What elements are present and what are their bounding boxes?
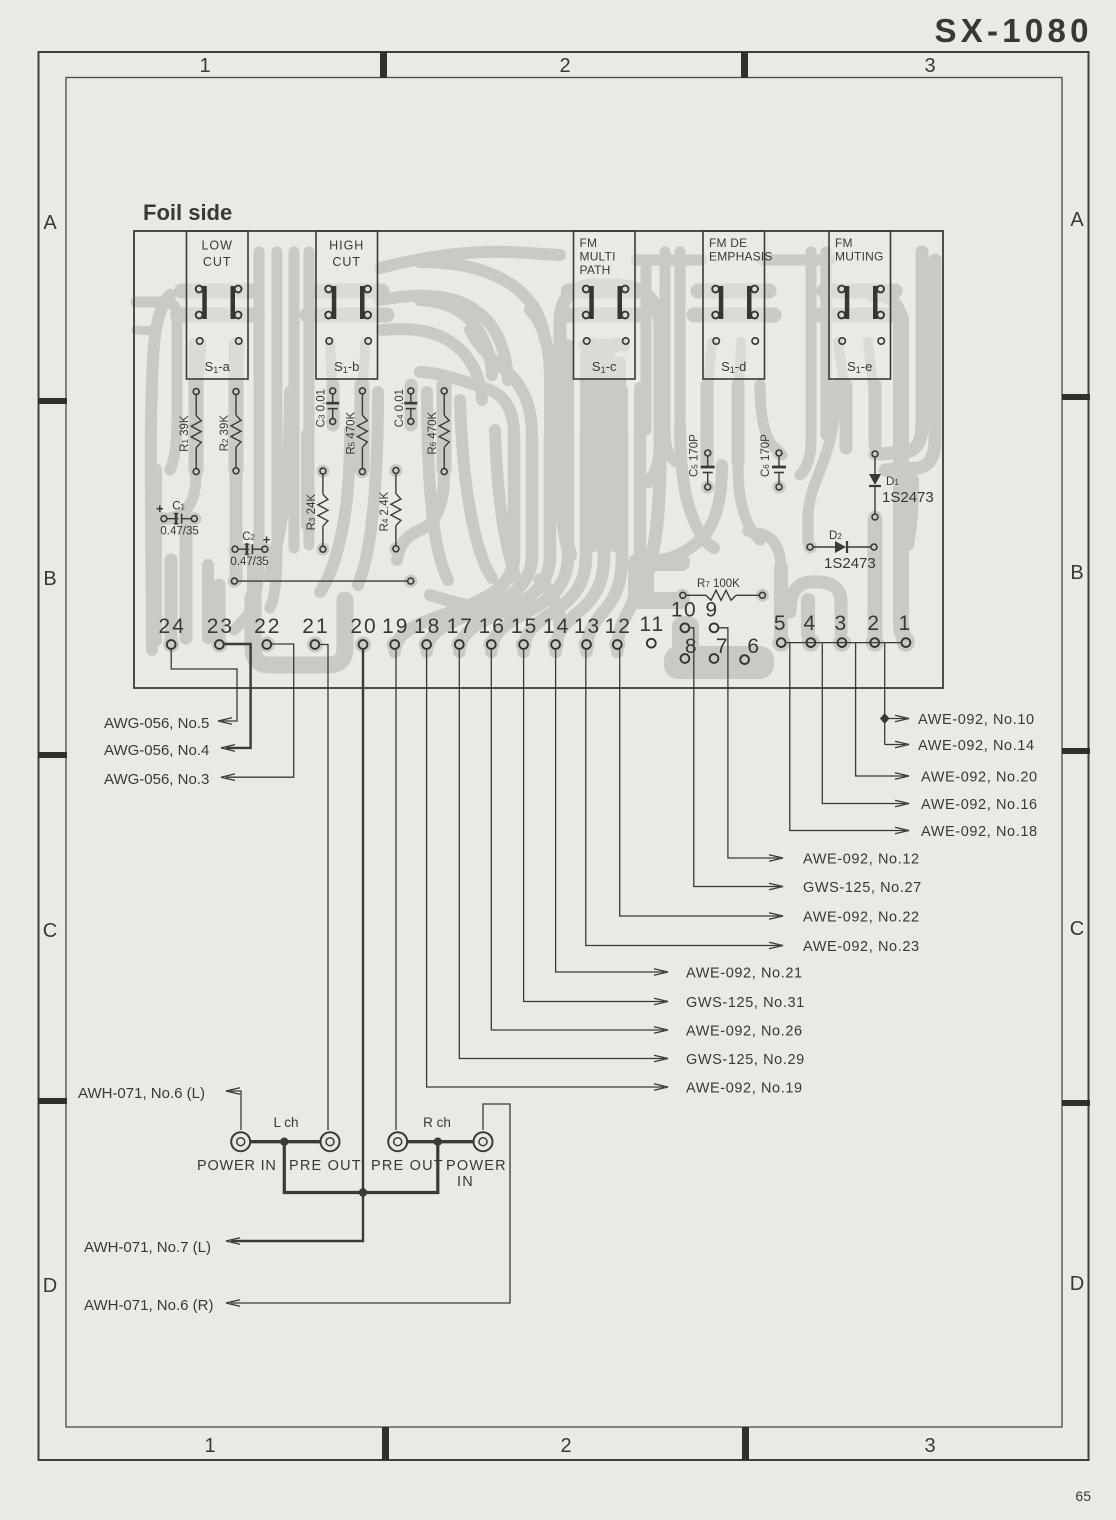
svg-text:2: 2: [867, 612, 879, 635]
svg-text:5: 5: [774, 612, 786, 635]
pin 5: [777, 638, 786, 647]
svg-text:22: 22: [254, 615, 281, 638]
wire to GWS-125, No.29: [459, 649, 664, 1059]
wire pin19 to PRE OUT R: [395, 649, 397, 1130]
wire ground bus U: [284, 1142, 438, 1193]
junction dot L: [280, 1138, 288, 1146]
svg-text:Foil side: Foil side: [143, 200, 232, 225]
junction diamond: [880, 713, 890, 724]
svg-text:A: A: [43, 212, 57, 234]
resistor R7 100K: [686, 590, 760, 600]
svg-text:+: +: [263, 532, 271, 547]
svg-text:R2 39K: R2 39K: [219, 415, 231, 452]
svg-text:AWH-071, No.7 (L): AWH-071, No.7 (L): [84, 1239, 211, 1256]
resistor R1 R<tspan font-size="8">1</tspan> 39K: [191, 395, 201, 469]
svg-text:9: 9: [705, 599, 718, 622]
wire to AWE-092, No.12: [719, 628, 779, 858]
svg-text:L ch: L ch: [273, 1115, 298, 1130]
svg-text:C6 170P: C6 170P: [760, 434, 772, 477]
svg-text:POWER IN: POWER IN: [197, 1158, 277, 1174]
svg-text:+: +: [156, 501, 164, 516]
capacitor C4 C<tspan font-size="8">4</tspan> 0.01: [404, 394, 417, 419]
svg-text:AWE-092, No.21: AWE-092, No.21: [686, 966, 803, 982]
svg-text:GWS-125, No.27: GWS-125, No.27: [803, 880, 922, 896]
svg-text:AWG-056, No.5: AWG-056, No.5: [104, 715, 209, 732]
svg-text:17: 17: [447, 615, 474, 638]
pin 10: [681, 623, 690, 632]
svg-text:0.47/35: 0.47/35: [160, 526, 198, 538]
wire POWER IN R to AWH-071 No.6(R): [231, 1104, 510, 1303]
svg-text:3: 3: [924, 1435, 935, 1457]
svg-text:R7 100K: R7 100K: [697, 578, 740, 590]
svg-text:11: 11: [639, 613, 665, 636]
svg-text:19: 19: [382, 615, 409, 638]
wire jack link L: [251, 1140, 321, 1143]
svg-text:CUT: CUT: [203, 255, 232, 269]
svg-text:AWE-092, No.12: AWE-092, No.12: [803, 852, 920, 868]
svg-text:B: B: [43, 568, 56, 590]
wire pin24 to AWG-056 No.5: [171, 649, 237, 721]
svg-text:1: 1: [204, 1435, 215, 1457]
svg-text:FM DE: FM DE: [709, 236, 747, 250]
svg-text:MUTING: MUTING: [835, 250, 884, 264]
svg-text:AWE-092, No.16: AWE-092, No.16: [921, 797, 1038, 813]
resistor R4 R<tspan font-size="8">4</tspan> 2.4K: [391, 474, 401, 546]
pin 17: [455, 640, 464, 649]
svg-text:21: 21: [302, 615, 329, 638]
wire to AWE-092, No.26: [491, 649, 664, 1030]
switch S1-a box: [187, 231, 249, 379]
svg-text:R1 39K: R1 39K: [179, 415, 191, 452]
svg-text:D2: D2: [829, 530, 842, 542]
svg-text:MULTI: MULTI: [580, 250, 616, 264]
junction dot R: [434, 1138, 442, 1146]
svg-text:AWE-092, No.19: AWE-092, No.19: [686, 1081, 803, 1097]
wire drop pins1-2 junction to AWE-092 No.10: [884, 643, 886, 745]
pin 19: [390, 640, 399, 649]
svg-text:AWH-071, No.6 (L): AWH-071, No.6 (L): [78, 1085, 205, 1102]
pin 24: [167, 640, 176, 649]
svg-text:R4 2.4K: R4 2.4K: [379, 492, 391, 532]
svg-text:3: 3: [924, 55, 935, 77]
svg-text:AWG-056, No.4: AWG-056, No.4: [104, 742, 209, 759]
svg-text:18: 18: [414, 615, 441, 638]
svg-text:CUT: CUT: [332, 255, 361, 269]
pin 21: [311, 640, 320, 649]
wire pin21 to PRE OUT L: [319, 645, 328, 1131]
capacitor C2 0.47/35: [238, 543, 262, 555]
wire to AWE-092, No.21: [556, 649, 664, 972]
svg-text:FM: FM: [835, 236, 853, 250]
svg-text:C3 0.01: C3 0.01: [316, 389, 328, 427]
resistor R3 R<tspan font-size="8">3</tspan> 24K: [318, 474, 328, 546]
wire to GWS-125, No.27: [690, 628, 779, 887]
jack POWER IN L: [231, 1132, 250, 1151]
svg-text:24: 24: [159, 615, 186, 638]
svg-text:AWE-092, No.20: AWE-092, No.20: [921, 770, 1038, 786]
svg-text:C2: C2: [242, 531, 255, 543]
svg-text:C: C: [1070, 918, 1084, 940]
pin 4: [806, 638, 815, 647]
svg-text:3: 3: [835, 612, 847, 635]
wire to AWE-092, No.23: [586, 649, 779, 946]
svg-text:0.47/35: 0.47/35: [230, 556, 268, 568]
svg-text:R3 24K: R3 24K: [306, 494, 318, 531]
switch S1-c box: [574, 231, 636, 379]
jack POWER IN R: [474, 1132, 493, 1151]
svg-text:AWE-092, No.10: AWE-092, No.10: [918, 712, 1035, 728]
resistor R5 R<tspan font-size="8">5</tspan> 470K: [357, 394, 367, 469]
svg-text:4: 4: [803, 612, 815, 635]
jack PRE OUT L: [321, 1132, 340, 1151]
svg-text:PRE OUT: PRE OUT: [289, 1158, 362, 1174]
switch S1-b box: [316, 231, 378, 379]
svg-text:C5 170P: C5 170P: [689, 434, 701, 477]
capacitor C6 170P: [772, 456, 786, 484]
svg-text:AWE-092, No.18: AWE-092, No.18: [921, 824, 1038, 840]
svg-text:AWG-056, No.3: AWG-056, No.3: [104, 771, 209, 788]
svg-text:D: D: [1070, 1273, 1084, 1295]
svg-text:D: D: [43, 1275, 57, 1297]
svg-text:AWE-092, No.14: AWE-092, No.14: [918, 738, 1035, 754]
pin 14: [551, 640, 560, 649]
wire jack link R: [408, 1140, 474, 1143]
wire to GWS-125, No.31: [524, 649, 664, 1002]
svg-text:1: 1: [899, 612, 911, 635]
wire to AWE-092, No.16: [822, 643, 905, 804]
svg-text:8: 8: [685, 635, 698, 658]
svg-text:6: 6: [747, 635, 760, 658]
svg-text:FM: FM: [580, 236, 598, 250]
pin 22: [262, 640, 271, 649]
svg-text:LOW: LOW: [201, 239, 232, 253]
wire bus pins 5-1: [786, 642, 902, 644]
svg-text:2: 2: [560, 1435, 571, 1457]
svg-text:13: 13: [574, 615, 601, 638]
svg-text:D1: D1: [886, 476, 899, 488]
pin 23: [215, 640, 224, 649]
pin 6: [740, 655, 749, 664]
svg-text:C1: C1: [172, 501, 185, 513]
svg-text:IN: IN: [457, 1174, 474, 1190]
svg-text:R5 470K: R5 470K: [345, 412, 357, 455]
wire AWH-071 No.6(L) to POWER IN L: [230, 1091, 241, 1130]
wire to AWE-092, No.20: [856, 643, 905, 776]
svg-text:PATH: PATH: [580, 263, 611, 277]
svg-text:C4 0.01: C4 0.01: [394, 389, 406, 427]
wire pin22 to AWG-056 No.3: [226, 644, 294, 777]
svg-text:A: A: [1070, 209, 1084, 231]
svg-text:S1-a: S1-a: [205, 359, 231, 375]
svg-text:AWE-092, No.22: AWE-092, No.22: [803, 910, 920, 926]
copper foil trace pattern (background artwork): [136, 252, 935, 679]
svg-text:GWS-125, No.29: GWS-125, No.29: [686, 1052, 805, 1068]
svg-text:23: 23: [207, 615, 234, 638]
svg-text:POWER: POWER: [446, 1158, 507, 1174]
capacitor C3 C<tspan font-size="8">3</tspan> 0.01: [326, 394, 339, 419]
pin 12: [613, 640, 622, 649]
inner page border: [66, 78, 1062, 1428]
jack PRE OUT R: [388, 1132, 407, 1151]
switch S1-e box: [829, 231, 891, 379]
pin 2: [870, 638, 879, 647]
svg-text:AWE-092, No.26: AWE-092, No.26: [686, 1024, 803, 1040]
svg-text:EMPHASIS: EMPHASIS: [709, 250, 773, 264]
switch S1-d box: [703, 231, 773, 379]
svg-text:AWH-071, No.6 (R): AWH-071, No.6 (R): [84, 1297, 213, 1314]
main board outline: [134, 231, 943, 688]
svg-text:15: 15: [511, 615, 538, 638]
pin 7: [710, 654, 719, 663]
svg-text:12: 12: [605, 615, 632, 638]
svg-text:R ch: R ch: [423, 1115, 451, 1130]
switch box backgrounds: [187, 231, 249, 379]
capacitor C1 0.47/35: [167, 513, 191, 525]
svg-text:20: 20: [350, 615, 377, 638]
svg-text:1S2473: 1S2473: [882, 489, 934, 506]
svg-text:2: 2: [559, 55, 570, 77]
pin 1: [902, 638, 911, 647]
pin 9: [710, 623, 719, 632]
pin 15: [519, 640, 528, 649]
wire C2 row jumper: [237, 580, 407, 582]
pin 18: [422, 640, 431, 649]
svg-text:R6 470K: R6 470K: [427, 412, 439, 455]
svg-text:AWE-092, No.23: AWE-092, No.23: [803, 939, 920, 955]
wire to AWE-092, No.19: [427, 649, 664, 1087]
svg-text:C: C: [43, 920, 57, 942]
svg-text:65: 65: [1075, 1488, 1091, 1504]
resistor R6 R<tspan font-size="8">6</tspan> 470K: [439, 394, 449, 469]
junction dot bus center: [359, 1188, 367, 1196]
resistor R2 R<tspan font-size="8">2</tspan> 39K: [231, 395, 241, 468]
wire to AWE-092, No.22: [620, 649, 779, 916]
svg-text:GWS-125, No.31: GWS-125, No.31: [686, 995, 805, 1011]
wire to AWE-092, No.18: [790, 643, 905, 831]
capacitor C5 170P: [701, 456, 715, 484]
svg-text:16: 16: [479, 615, 506, 638]
pin 13: [582, 640, 591, 649]
svg-text:HIGH: HIGH: [329, 239, 364, 253]
diode D2 1S2473: [807, 530, 877, 572]
svg-text:B: B: [1070, 562, 1083, 584]
svg-text:10: 10: [671, 599, 697, 622]
svg-text:PRE OUT: PRE OUT: [371, 1158, 444, 1174]
pin 11: [647, 639, 656, 648]
svg-text:7: 7: [716, 635, 729, 658]
wire to AWE-092, No.14: [885, 744, 905, 746]
svg-text:1: 1: [199, 55, 210, 77]
wire pin20 to AWH-071 No.7(L): [231, 649, 363, 1241]
svg-text:14: 14: [543, 615, 570, 638]
diode D1 1S2473: [869, 451, 934, 520]
wire pin23 to AWG-056 No.4: [224, 644, 251, 748]
svg-text:1S2473: 1S2473: [824, 555, 876, 572]
pin 8: [681, 654, 690, 663]
pin 16: [487, 640, 496, 649]
pin 20: [359, 640, 368, 649]
pin 3: [838, 638, 847, 647]
